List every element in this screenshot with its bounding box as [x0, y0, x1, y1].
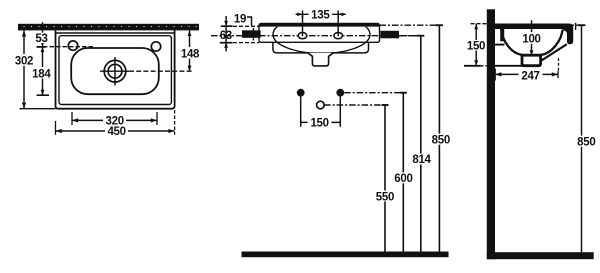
dim 135 extension to holes: [302, 14, 304, 36]
rim bar: [495, 24, 563, 30]
bolt axis dash-dot line (across basin): [259, 35, 421, 37]
rim band outline: [259, 24, 380, 43]
rim band thick top: [259, 24, 380, 27]
basin outer rectangle: [56, 30, 175, 108]
dim 302 line: [23, 30, 25, 108]
svg-text:150: 150: [467, 41, 485, 53]
label bg 600: [393, 172, 415, 183]
dim 135 line: [296, 13, 346, 15]
label bg 247: [519, 69, 543, 80]
dim 247 end ticks: [494, 69, 496, 81]
dim 247 arrows: [495, 72, 558, 76]
dim 100 arrow: [530, 50, 534, 55]
dim 450 arrows: [56, 129, 175, 133]
under profile left: [495, 65, 523, 67]
faucet hole dashed centerline: [37, 46, 95, 48]
dim 100 line segments: [531, 29, 533, 33]
svg-text:53: 53: [35, 33, 47, 45]
dim 53 arrows: [41, 30, 45, 46]
dim 150 line: [301, 121, 341, 123]
dim 150 extension dashes: [471, 23, 487, 25]
dim 450 extension ticks: [55, 121, 57, 135]
dim 184 arrows: [41, 47, 45, 95]
dim 150 line: [475, 24, 477, 66]
label bg 320: [103, 115, 126, 126]
label bg 814: [411, 154, 433, 165]
dot extension lines down: [300, 97, 302, 127]
dim 63 crossbar ticks: [221, 25, 233, 27]
dim 135 arrows: [297, 13, 343, 17]
wall bar: [487, 9, 495, 259]
dim 150 arrows: [474, 24, 478, 66]
faucet hole right (ellipse): [334, 33, 343, 39]
dim 302 arrows: [22, 30, 26, 108]
svg-text:148: 148: [181, 48, 200, 60]
label bg 150r: [467, 40, 485, 51]
dim 550 vertical: [384, 105, 386, 252]
water supply circle: [317, 101, 325, 109]
right mounting bolt: [381, 31, 400, 39]
svg-text:63: 63: [220, 30, 232, 42]
label bg 850: [430, 134, 452, 145]
basin lower body: [273, 42, 369, 53]
dash-dot to 814 line (right of bolt): [399, 35, 424, 37]
svg-text:150: 150: [310, 118, 328, 130]
bolt axis dash-dot line (left of basin): [211, 35, 259, 37]
svg-text:814: 814: [412, 154, 431, 166]
label bg 53: [33, 33, 51, 44]
label 19 leader: [246, 17, 252, 26]
under profile diagonal right: [542, 44, 567, 60]
floor bar (right): [487, 252, 594, 259]
dash-dot to 850 line (rim top): [380, 24, 443, 26]
label bg 550: [374, 191, 396, 202]
dim 100 tick above rim: [531, 20, 533, 23]
bowl rounded outline: [71, 48, 159, 94]
label bg 150m: [308, 117, 332, 128]
svg-text:550: 550: [376, 191, 394, 203]
dim 135 end ticks: [302, 11, 304, 19]
dim 53/184 crossbar at hole line: [37, 46, 46, 48]
dim 53/184 shared line: [42, 22, 44, 95]
dim 148 arrows: [188, 30, 192, 71]
dim 247 line: [495, 73, 558, 75]
svg-text:450: 450: [107, 126, 125, 138]
dim 850 vertical (right view): [581, 25, 583, 252]
small tick on 850 extension: [575, 23, 577, 30]
label bg 100: [522, 33, 541, 44]
right faucet hole: [151, 42, 160, 51]
svg-text:184: 184: [32, 68, 51, 80]
dim 247 right extension dash: [558, 58, 560, 71]
dim 320 line: [72, 119, 157, 121]
drain inner circle: [108, 64, 122, 78]
dim 148 line: [189, 30, 191, 71]
bowl profile curve: [501, 29, 562, 55]
dash-dot to 600 line: [344, 92, 406, 94]
basin inner rectangle: [59, 36, 171, 105]
dim 63 extension dashes: [233, 25, 259, 27]
dash to 550 line: [324, 104, 388, 106]
left mounting bolt: [242, 30, 261, 38]
label bg 148: [180, 47, 201, 59]
dim 320 arrows: [72, 118, 157, 122]
front edge hook: [563, 24, 573, 45]
svg-text:247: 247: [521, 71, 539, 83]
drain outer circle: [104, 60, 126, 82]
dim 850 vertical: [438, 25, 440, 251]
label bg 184: [31, 67, 52, 79]
floor bar (middle): [242, 252, 449, 258]
bowl ellipse arc: [273, 16, 370, 54]
label bg 19: [234, 13, 248, 24]
drain cross horizontal + centerline to 148: [100, 70, 129, 72]
mounting bracket: [500, 29, 504, 41]
label bg 850r: [575, 136, 598, 147]
label bg 135: [309, 9, 333, 20]
wall section bar: [18, 24, 199, 31]
svg-text:19: 19: [234, 13, 246, 25]
svg-text:850: 850: [577, 137, 595, 149]
dim 184 bottom tick: [37, 94, 50, 96]
wall hatch dots: [23, 26, 196, 27]
drain cross vertical: [114, 57, 116, 86]
svg-text:850: 850: [432, 135, 450, 147]
dim 63 arrows: [224, 21, 228, 48]
dim 320 extension ticks: [71, 112, 73, 125]
svg-text:100: 100: [522, 33, 540, 45]
bolt position tick: [252, 28, 254, 41]
svg-text:135: 135: [311, 10, 330, 22]
label bg 450: [105, 125, 128, 136]
drain trap dot right: [336, 89, 344, 97]
dim 63 line: [225, 16, 227, 52]
dim 814 vertical: [420, 36, 422, 252]
faucet hole left (ellipse): [298, 33, 307, 39]
svg-text:600: 600: [394, 173, 412, 185]
drain box: [522, 55, 541, 65]
dim 450 line: [56, 130, 175, 132]
drain trap dot left: [297, 89, 305, 97]
svg-text:302: 302: [15, 56, 33, 68]
dim 150 end ticks: [300, 118, 302, 127]
label bg 302: [14, 54, 35, 66]
dim 302 bottom extension: [20, 108, 56, 110]
drain fitting: [308, 53, 334, 66]
dim 600 vertical: [402, 93, 404, 252]
dim 850 top dash-dot: [564, 24, 586, 26]
basin outer top edge: [56, 32, 175, 34]
left faucet hole: [68, 41, 77, 50]
